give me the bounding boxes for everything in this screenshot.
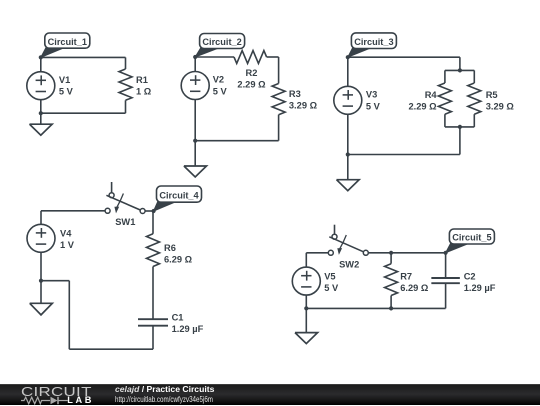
svg-text:C2: C2: [464, 272, 476, 282]
svg-text:SW2: SW2: [339, 260, 359, 270]
svg-text:SW1: SW1: [115, 217, 135, 227]
svg-text:V5: V5: [324, 272, 335, 282]
svg-text:1 Ω: 1 Ω: [136, 87, 152, 97]
svg-text:V4: V4: [60, 229, 72, 239]
svg-text:R3: R3: [289, 89, 301, 99]
svg-text:R5: R5: [486, 90, 498, 100]
svg-text:V3: V3: [366, 90, 377, 100]
svg-text:1.29 µF: 1.29 µF: [464, 283, 496, 293]
svg-text:5 V: 5 V: [213, 86, 228, 96]
svg-text:1.29 µF: 1.29 µF: [172, 324, 204, 334]
svg-text:Circuit_3: Circuit_3: [354, 37, 393, 47]
svg-text:6.29 Ω: 6.29 Ω: [164, 254, 193, 264]
svg-text:5 V: 5 V: [59, 87, 74, 97]
svg-text:Circuit_4: Circuit_4: [159, 190, 199, 200]
svg-text:V2: V2: [213, 75, 224, 85]
svg-text:Circuit_2: Circuit_2: [202, 37, 241, 47]
svg-text:3.29 Ω: 3.29 Ω: [289, 101, 318, 111]
svg-text:R7: R7: [400, 272, 412, 282]
svg-text:R4: R4: [425, 90, 438, 100]
svg-text:R1: R1: [136, 75, 148, 85]
svg-text:Circuit_5: Circuit_5: [452, 233, 491, 243]
svg-text:1 V: 1 V: [60, 240, 75, 250]
svg-text:5 V: 5 V: [324, 283, 339, 293]
svg-text:R2: R2: [246, 68, 258, 78]
svg-text:5 V: 5 V: [366, 101, 381, 111]
svg-text:3.29 Ω: 3.29 Ω: [486, 102, 515, 112]
svg-text:R6: R6: [164, 243, 176, 253]
svg-text:C1: C1: [172, 313, 184, 323]
svg-text:V1: V1: [59, 75, 70, 85]
svg-text:2.29 Ω: 2.29 Ω: [237, 79, 266, 89]
svg-text:6.29 Ω: 6.29 Ω: [400, 283, 429, 293]
svg-text:Circuit_1: Circuit_1: [48, 37, 87, 47]
svg-text:2.29 Ω: 2.29 Ω: [408, 102, 437, 112]
